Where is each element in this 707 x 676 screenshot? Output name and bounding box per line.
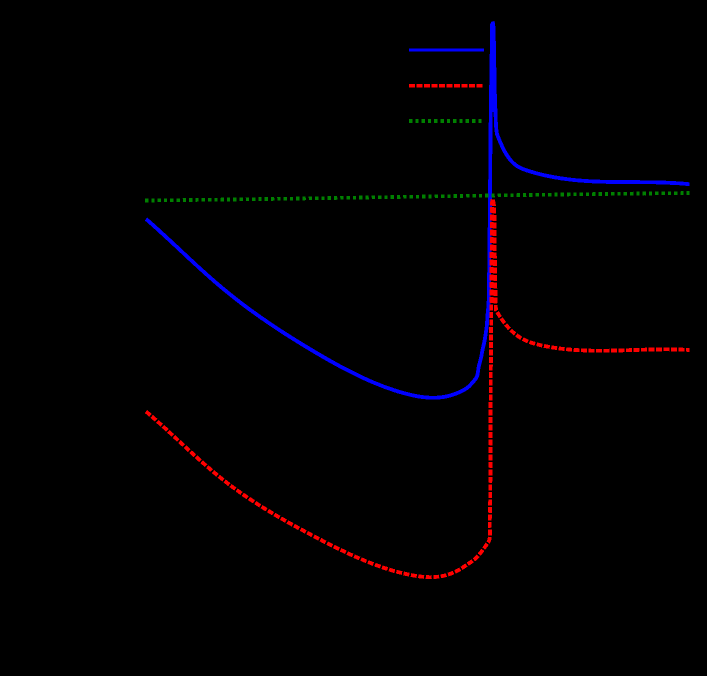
legend: green dotted sample — [409, 119, 484, 123]
blue spike filler between branches — [491, 23, 494, 113]
green dotted horizontal curve (resistance) — [145, 193, 690, 201]
red dashed curve (reactance) — [146, 199, 690, 577]
legend: red dashed sample — [409, 84, 484, 88]
blue solid curve (impedance magnitude) — [146, 23, 690, 397]
legend: blue solid sample — [409, 48, 484, 51]
